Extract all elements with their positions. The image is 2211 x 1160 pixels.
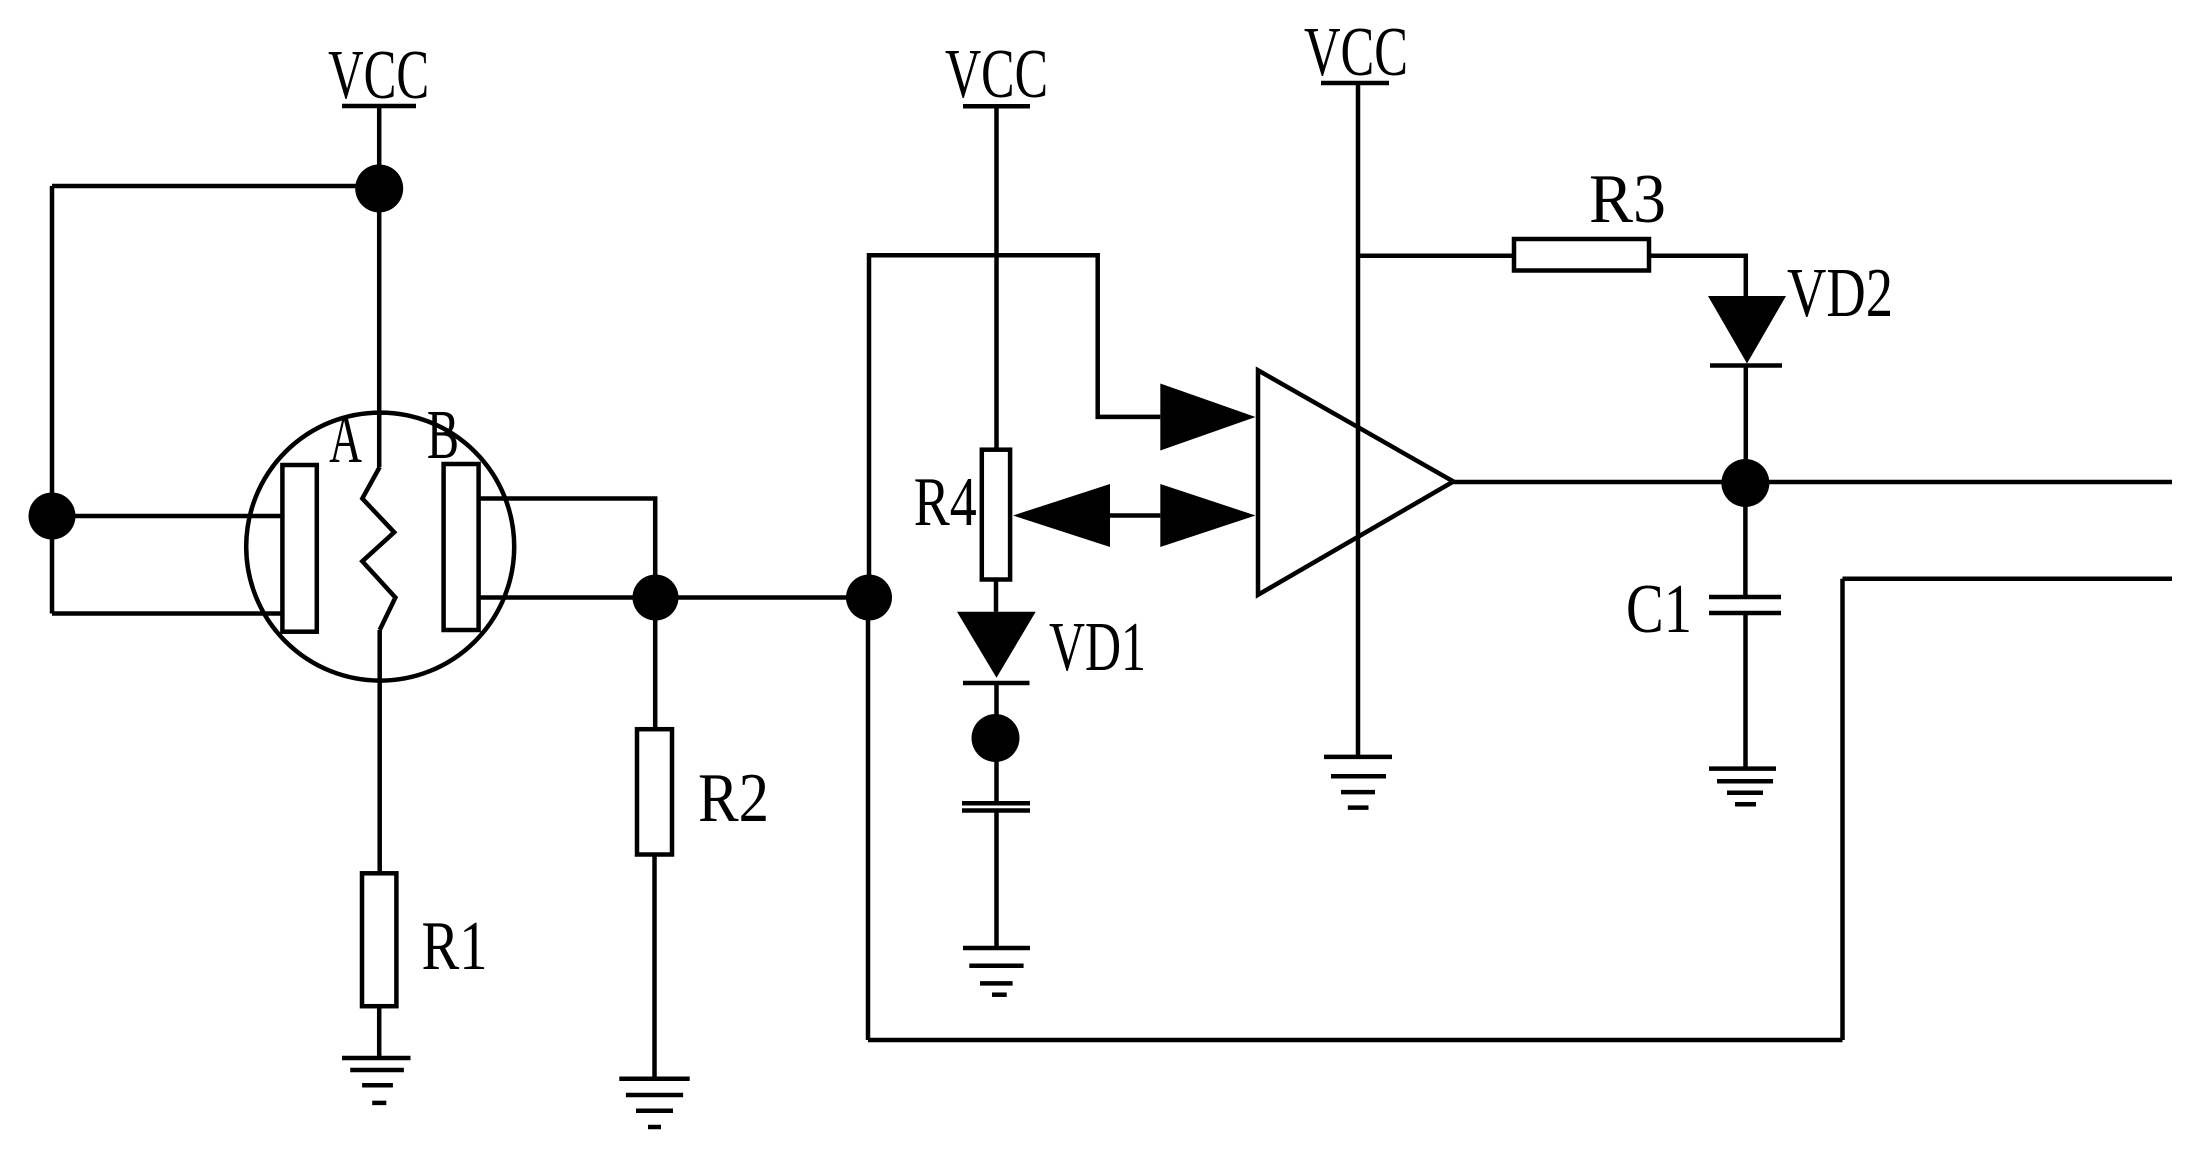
VD2 cathode bar: [1710, 363, 1782, 368]
svg-text:R1: R1: [422, 908, 488, 985]
VCC bar 2: [963, 104, 1030, 109]
wire to plate A upper: [52, 514, 284, 519]
svg-text:R2: R2: [698, 760, 769, 837]
wiper arrow pointing left to R4: [1013, 484, 1110, 547]
wire top-left horizontal: [52, 184, 379, 189]
feedback wire left vertical from mid node: [866, 598, 871, 1041]
svg-text:C1: C1: [1626, 571, 1692, 648]
wire heater down to R1: [377, 630, 382, 873]
wire plate B upper right: [477, 499, 655, 598]
heater zigzag: [362, 467, 395, 630]
output wire: [1453, 480, 2172, 485]
svg-text:VD2: VD2: [1787, 255, 1893, 332]
electrode plate B: [444, 464, 479, 630]
svg-text:VCC: VCC: [328, 37, 429, 114]
wire R3 to VD2: [1649, 256, 1746, 297]
wire VCC3 branch to R3: [1358, 254, 1514, 259]
svg-text:VCC: VCC: [945, 36, 1048, 113]
wire R2 to ground: [652, 855, 657, 1079]
capacitor C1 plate 1: [1709, 595, 1781, 600]
VD1 cathode bar: [963, 681, 1030, 686]
capacitor C1 plate 2: [1709, 611, 1781, 616]
svg-text:B: B: [427, 396, 459, 474]
junction dot output node: [1721, 459, 1769, 507]
resistor R2: [637, 729, 672, 854]
op-amp U1: [1258, 370, 1453, 595]
wire loop from mid node to op-amp input: [869, 255, 1160, 597]
capacitor below VD1 plate 1: [962, 801, 1030, 806]
ground below op-amp: [1324, 757, 1392, 808]
diode VD1: [957, 612, 1036, 678]
potentiometer R4: [982, 450, 1010, 580]
wire R1 to ground: [377, 1006, 382, 1058]
junction dot below VD1: [972, 714, 1020, 762]
wire C1 to ground: [1743, 613, 1748, 769]
junction dot left node: [29, 493, 76, 540]
svg-text:A: A: [329, 399, 362, 477]
ground below C1: [1709, 769, 1776, 805]
wire VD1 to dot: [994, 683, 999, 803]
wire VCC2 down to R4: [994, 106, 999, 449]
wire node to node: [656, 595, 870, 600]
wire down to R2: [653, 598, 658, 730]
electrode plate A: [282, 465, 316, 632]
wire node to C1: [1743, 483, 1748, 595]
wire VCC1 down to sensor heater: [377, 106, 382, 467]
wire VCC3 down through op-amp to ground: [1356, 83, 1361, 757]
wire plate B lower right: [477, 595, 655, 600]
wire R4 to VD1: [994, 580, 999, 612]
wiper wire: [1110, 513, 1160, 518]
wire left vertical: [50, 186, 55, 614]
junction dot mid node: [846, 575, 892, 621]
wire cap to ground: [994, 812, 999, 948]
junction dot at VCC1 branch: [355, 164, 403, 212]
svg-text:VD1: VD1: [1049, 609, 1146, 686]
svg-text:VCC: VCC: [1304, 14, 1408, 91]
capacitor below VD1 plate 2: [962, 808, 1030, 813]
diode VD2: [1708, 296, 1786, 364]
svg-text:R4: R4: [914, 464, 977, 541]
ground below R1: [342, 1058, 411, 1103]
feedback wire bottom horizontal: [868, 1038, 1843, 1043]
wire to plate A lower: [52, 611, 284, 616]
feedback wire upper: [1843, 577, 2173, 582]
ground below cap: [963, 948, 1030, 995]
gas sensor envelope circle: [246, 413, 514, 681]
feedback wire right vertical: [1840, 579, 1845, 1040]
svg-text:R3: R3: [1589, 161, 1666, 238]
junction dot sensor output: [633, 575, 679, 621]
VCC bar 3: [1321, 81, 1389, 86]
VCC bar 1: [342, 104, 416, 109]
ground below R2: [619, 1079, 689, 1127]
resistor R3: [1514, 239, 1649, 271]
wire VD2 to output node: [1744, 366, 1749, 484]
resistor R1: [362, 873, 396, 1006]
input arrow to op-amp noninverting: [1160, 384, 1255, 451]
arrow to op-amp inverting input: [1160, 484, 1255, 547]
